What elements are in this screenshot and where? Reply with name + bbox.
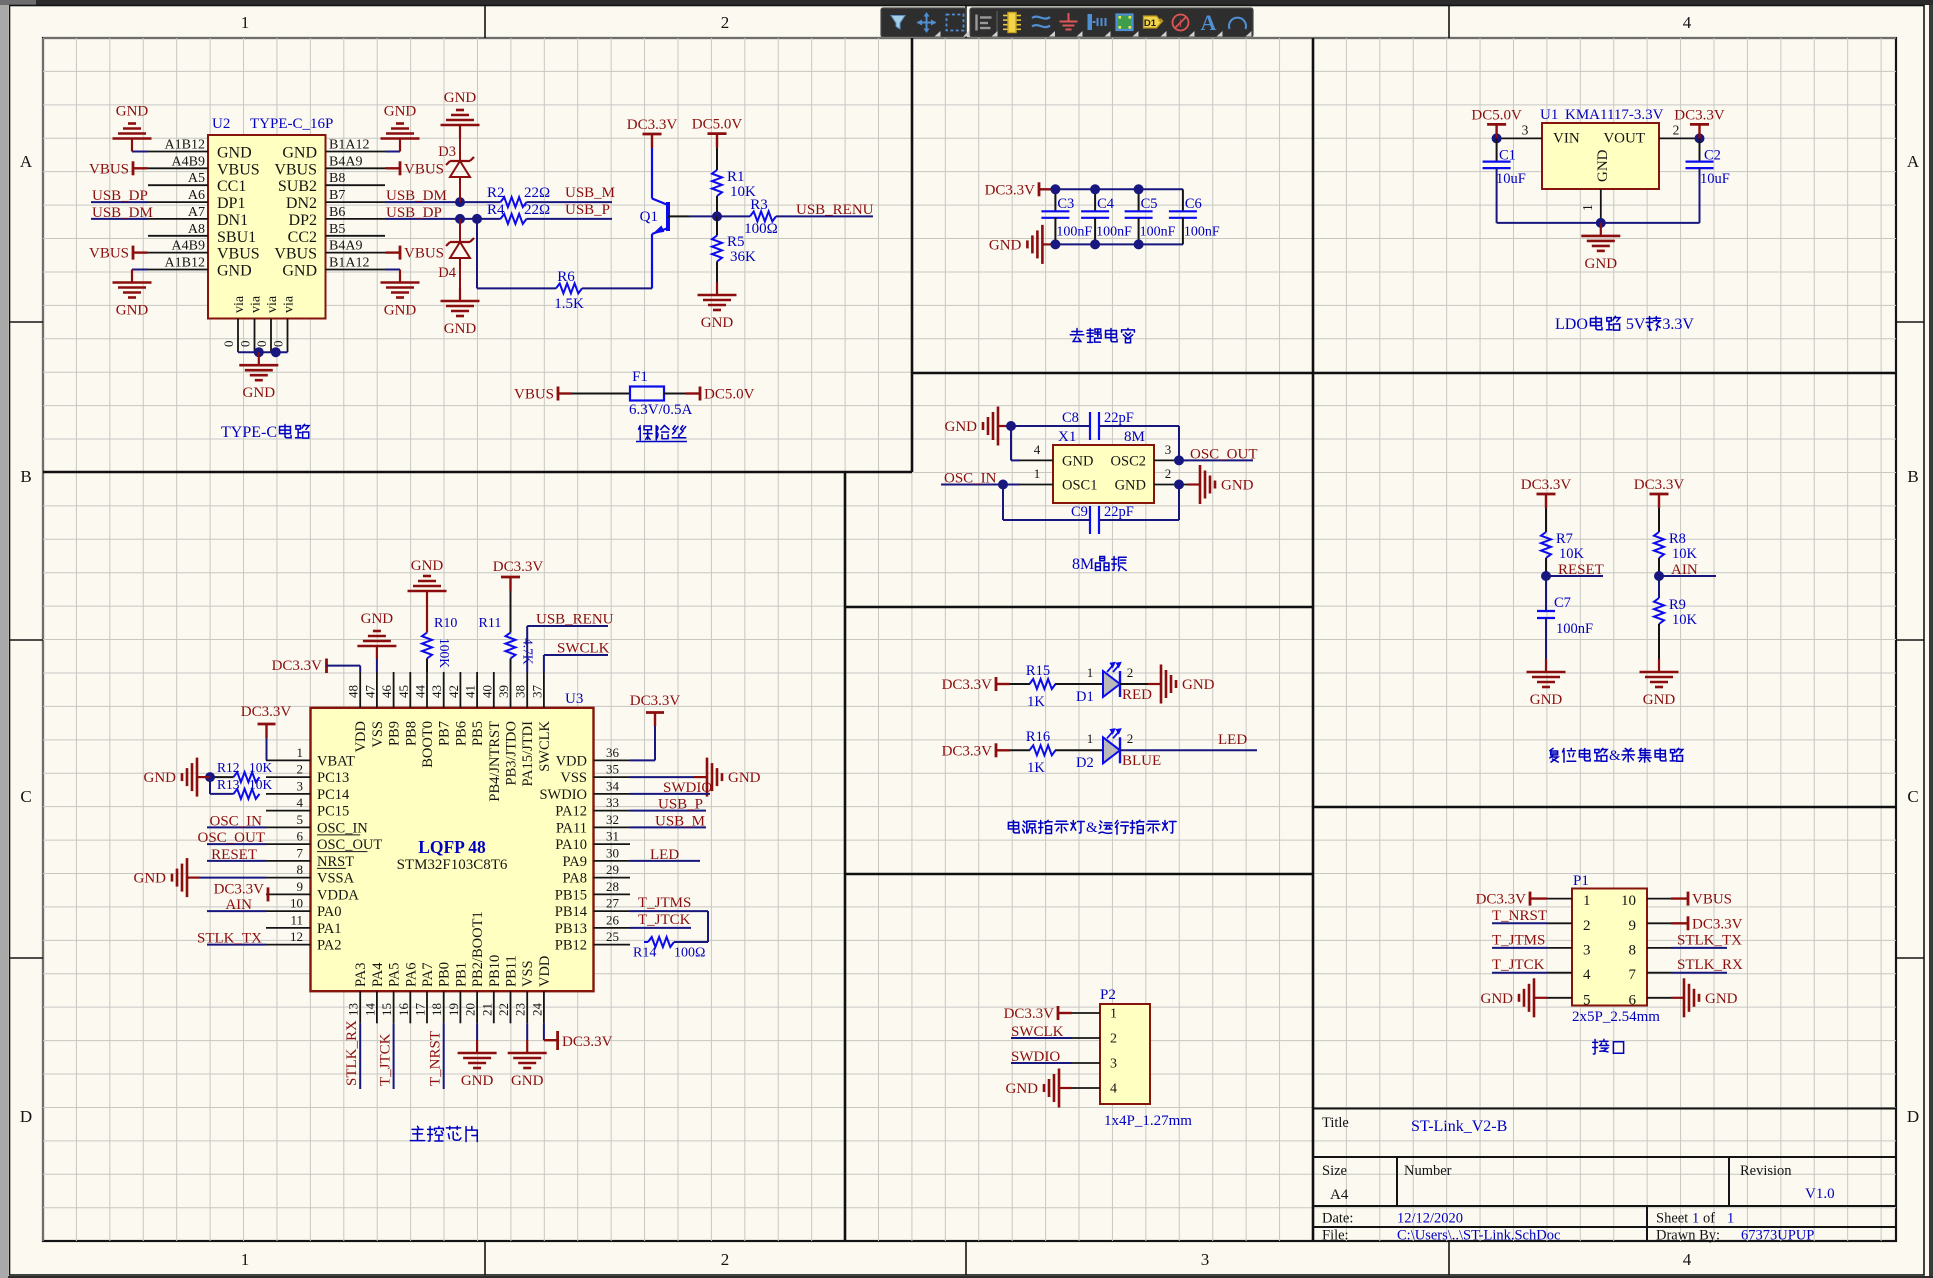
fuse F1 (630, 387, 664, 401)
transistor Q1 (666, 202, 670, 231)
svg-text:Q1: Q1 (640, 209, 658, 225)
ground above D3 (459, 125, 461, 138)
U3 pin 44 (BOOT0) (426, 672, 428, 708)
svg-text:15: 15 (379, 1003, 394, 1016)
svg-text:PA3: PA3 (353, 963, 369, 987)
svg-text:OSC_OUT: OSC_OUT (197, 830, 265, 846)
toolbar icon: ground (1060, 13, 1078, 30)
U3 pin 17 (PA7) (426, 991, 428, 1023)
power port DC3.3V P1 pin1 (1530, 897, 1547, 899)
svg-text:36: 36 (606, 745, 620, 760)
toolbar icon: power port (1088, 14, 1093, 30)
power port DC3.3V reset (1545, 494, 1547, 508)
svg-text:R13: R13 (217, 777, 240, 792)
svg-text:File:: File: (1322, 1228, 1349, 1244)
ground U2 bottom-left (132, 269, 148, 271)
svg-text:13: 13 (346, 1003, 361, 1016)
P1 pin 1 (1547, 898, 1572, 900)
P2 pin 3 (1072, 1062, 1100, 1064)
ground pin35 (630, 776, 694, 778)
toolbar divider (996, 11, 998, 34)
svg-text:B5: B5 (329, 222, 345, 237)
svg-text:A8: A8 (188, 222, 205, 237)
U3 pin 27 (PB14) (594, 910, 631, 912)
U3 pin 43 (PB7) (443, 672, 445, 708)
svg-text:STLK_RX: STLK_RX (344, 1020, 360, 1086)
svg-text:GND: GND (1006, 1081, 1039, 1097)
svg-text:B1A12: B1A12 (329, 138, 369, 153)
svg-text:T_JTCK: T_JTCK (638, 912, 691, 928)
U3 pin 5 (OSC_IN) (266, 826, 311, 828)
P1 pin 5 (1547, 997, 1572, 999)
svg-text:PA1: PA1 (317, 921, 341, 937)
U3 pin 34 (SWDIO) (594, 793, 631, 795)
svg-text:3.3V: 3.3V (1662, 316, 1694, 333)
svg-text:&: & (1609, 748, 1621, 764)
svg-text:Sheet: Sheet (1656, 1211, 1688, 1227)
svg-text:DC3.3V: DC3.3V (214, 881, 265, 897)
svg-text:SWDIO: SWDIO (1011, 1049, 1060, 1065)
svg-text:P1: P1 (1573, 873, 1589, 889)
net label T_JTCK / wire (1492, 972, 1547, 974)
svg-text:DC3.3V: DC3.3V (241, 704, 292, 720)
U3 pin 21 (PB10) (493, 991, 495, 1023)
svg-text:USB_DM: USB_DM (92, 205, 153, 221)
svg-text:GND: GND (1595, 149, 1611, 182)
svg-text:R1: R1 (727, 169, 745, 185)
svg-text:STLK_TX: STLK_TX (1677, 932, 1742, 948)
svg-text:DN1: DN1 (217, 212, 248, 229)
caption LEDs (1008, 820, 1019, 832)
svg-text:DC3.3V: DC3.3V (493, 559, 544, 575)
svg-text:GND: GND (282, 263, 317, 280)
svg-text:A: A (1907, 152, 1920, 171)
MCU U3 STM32F103C8T6 (311, 708, 594, 991)
svg-text:T_JTCK: T_JTCK (1492, 957, 1545, 973)
svg-text:GND: GND (361, 611, 394, 627)
svg-text:22: 22 (496, 1003, 511, 1016)
svg-text:VSS: VSS (370, 721, 386, 748)
net label USB_DM / wire (91, 218, 148, 220)
svg-text:PB3/JTDO: PB3/JTDO (504, 721, 520, 785)
svg-text:GND: GND (1481, 991, 1514, 1007)
svg-text:PB2/BOOT1: PB2/BOOT1 (470, 911, 486, 987)
svg-text:PB0: PB0 (437, 962, 453, 987)
svg-text:PB7: PB7 (437, 721, 453, 746)
svg-text:R8: R8 (1669, 531, 1686, 547)
svg-text:0: 0 (221, 341, 236, 348)
U3 pin 16 (PA6) (409, 991, 411, 1023)
svg-text:D: D (20, 1107, 32, 1126)
toolbar icon: designator tag (1144, 16, 1162, 28)
caption reset section (1550, 748, 1558, 762)
net label T_NRST / wire (443, 1023, 445, 1089)
svg-text:0: 0 (271, 341, 286, 348)
svg-text:LED: LED (1218, 732, 1247, 748)
U2 left pin A1B12 (148, 151, 208, 153)
X1 pin 3 (1154, 459, 1187, 461)
svg-text:10K: 10K (249, 760, 273, 775)
capacitor C9 22pF (1089, 506, 1091, 534)
power port DC3.3V P1 pin9 (1671, 922, 1688, 924)
svg-text:SUB2: SUB2 (278, 178, 317, 195)
svg-text:DC3.3V: DC3.3V (1674, 107, 1725, 123)
wire USB_DM net (385, 201, 501, 203)
svg-text:R4: R4 (487, 202, 505, 218)
U3 pin 18 (PB0) (443, 991, 445, 1023)
P1 pin 7 (1647, 972, 1671, 974)
svg-text:1: 1 (1727, 1211, 1734, 1227)
svg-text:19: 19 (446, 1003, 461, 1016)
svg-text:100nF: 100nF (1184, 225, 1220, 240)
svg-text:1: 1 (1034, 466, 1041, 481)
svg-text:T_JTCK: T_JTCK (378, 1033, 394, 1086)
wire C8 top loop (1011, 425, 1090, 427)
svg-text:GND: GND (411, 558, 444, 574)
svg-text:A4: A4 (1330, 1187, 1349, 1203)
svg-text:R14: R14 (633, 946, 656, 961)
resistor R9 10K (1658, 576, 1660, 598)
diode D3 zener (459, 176, 461, 202)
power port DC3.3V LED1 (996, 683, 1010, 685)
svg-text:C8: C8 (1062, 410, 1079, 426)
resistor R10 100K (426, 659, 428, 673)
net label T_JTCK bottom / wire (393, 1023, 395, 1089)
svg-text:VBUS: VBUS (404, 246, 444, 262)
svg-text:2: 2 (1127, 731, 1134, 746)
svg-text:ST-Link_V2-B: ST-Link_V2-B (1411, 1118, 1507, 1135)
svg-text:32: 32 (606, 812, 619, 827)
svg-text:PA8: PA8 (563, 871, 587, 887)
top dark strip (0, 0, 1933, 5)
svg-text:VBUS: VBUS (1692, 892, 1732, 908)
U3 pin 39 (PB3/JTDO) (510, 672, 512, 708)
svg-text:DC5.0V: DC5.0V (704, 387, 755, 403)
svg-text:PB10: PB10 (487, 955, 503, 987)
U3 pin 40 (PB4/JNTRST) (493, 672, 495, 708)
net label SWDIO P2 / wire (1011, 1062, 1072, 1064)
svg-text:GND: GND (1530, 692, 1563, 708)
svg-text:DC3.3V: DC3.3V (627, 117, 678, 133)
toolbar (881, 8, 966, 37)
svg-text:27: 27 (606, 896, 620, 911)
svg-text:100K: 100K (437, 638, 452, 668)
diode D4 zener (459, 219, 461, 241)
svg-text:1: 1 (1087, 731, 1094, 746)
svg-text:11: 11 (290, 912, 303, 927)
svg-text:RED: RED (1122, 687, 1152, 703)
svg-text:C5: C5 (1141, 196, 1158, 212)
svg-text:22pF: 22pF (1104, 504, 1134, 520)
svg-text:A: A (20, 152, 33, 171)
U1 pin 3 (1497, 137, 1542, 139)
svg-text:R6: R6 (557, 269, 575, 285)
svg-text:1: 1 (1087, 665, 1094, 680)
svg-text:F1: F1 (632, 369, 648, 385)
P1 pin 6 (1647, 997, 1671, 999)
svg-text:R7: R7 (1556, 531, 1573, 547)
svg-text:1: 1 (1110, 1007, 1117, 1022)
U3 pin 15 (PA5) (393, 991, 395, 1023)
svg-text:26: 26 (606, 912, 620, 927)
svg-text:39: 39 (496, 685, 511, 698)
U3 pin 23 (VSS) (526, 991, 528, 1023)
ground U2 bottom-right (385, 269, 400, 271)
svg-text:R5: R5 (727, 234, 745, 250)
section partition lines (911, 38, 914, 472)
capacitor C3 100nF (1054, 189, 1056, 211)
power port DC3.3V ain (1658, 494, 1660, 508)
caption decoupling (1070, 328, 1083, 341)
svg-text:Title: Title (1322, 1115, 1349, 1131)
svg-text:PB1: PB1 (453, 962, 469, 987)
P1 pin 9 (1647, 922, 1671, 924)
svg-text:22pF: 22pF (1104, 410, 1134, 426)
capacitor C5 100nF (1138, 189, 1140, 211)
svg-text:35: 35 (606, 762, 619, 777)
svg-text:AIN: AIN (1671, 562, 1698, 578)
title block (1313, 1108, 1896, 1110)
svg-text:BOOT0: BOOT0 (420, 721, 436, 768)
svg-text:GND: GND (282, 145, 317, 162)
svg-text:SBU1: SBU1 (217, 229, 256, 246)
svg-text:SWDIO: SWDIO (663, 780, 712, 796)
svg-text:24: 24 (529, 1003, 544, 1017)
svg-text:C2: C2 (1704, 148, 1721, 164)
net label STLK_RX / wire (359, 1023, 361, 1089)
svg-text:D4: D4 (438, 265, 456, 281)
svg-text:D3: D3 (438, 144, 456, 160)
net label OSC_OUT / wire (207, 843, 266, 845)
svg-text:3: 3 (1201, 1250, 1210, 1269)
svg-text:PC14: PC14 (317, 787, 350, 803)
ground below C7 (1545, 659, 1547, 672)
svg-text:8: 8 (297, 862, 304, 877)
ground pin20 (476, 1023, 478, 1040)
svg-text:VBUS: VBUS (404, 161, 444, 177)
svg-text:USB_M: USB_M (565, 185, 615, 201)
svg-text:VDD: VDD (537, 956, 553, 987)
X1 pin 4 (1020, 459, 1053, 461)
svg-text:R3: R3 (750, 197, 768, 213)
ground below R9 (1658, 659, 1660, 672)
svg-text:45: 45 (396, 685, 411, 698)
net label USB_DP / wire (91, 201, 148, 203)
svg-text:B8: B8 (329, 171, 345, 186)
U2 right pin B1A12 (326, 269, 386, 271)
toolbar icon: no-ERC marker (1173, 15, 1189, 31)
power port VBUS U2 right row2 (385, 167, 386, 169)
svg-text:B1A12: B1A12 (329, 256, 369, 271)
svg-text:R11: R11 (479, 616, 502, 631)
wire C9 bottom loop (1002, 485, 1004, 521)
resistor R8 10K (1658, 508, 1660, 532)
svg-text:DC3.3V: DC3.3V (630, 693, 681, 709)
power port DC5.0V at LDO (1492, 133, 1502, 143)
svg-text:DN2: DN2 (286, 195, 317, 212)
ground pin8 VSSA (200, 877, 266, 879)
svg-text:USB_DP: USB_DP (386, 205, 442, 221)
svg-text:1K: 1K (1027, 694, 1045, 710)
power port DC3.3V decoupling (1039, 188, 1051, 190)
U3 pin 14 (PA4) (376, 991, 378, 1023)
resistor R3 100ohm (717, 215, 750, 217)
U2 left pin A8 (148, 235, 208, 237)
svg-text:23: 23 (513, 1003, 528, 1016)
svg-text:PB15: PB15 (555, 887, 587, 903)
crystal X1 8M (1053, 445, 1154, 503)
U3 pin 48 (VDD) (359, 672, 361, 708)
svg-text:GND: GND (701, 315, 734, 331)
svg-text:Drawn By:: Drawn By: (1656, 1228, 1720, 1244)
svg-text:GND: GND (444, 321, 477, 337)
svg-text:VBUS: VBUS (89, 161, 129, 177)
svg-text:GND: GND (384, 104, 417, 120)
U2 left pin A4B9 (148, 167, 208, 169)
U2 left pin A6 (148, 201, 208, 203)
svg-text:PB9: PB9 (387, 721, 403, 746)
svg-text:LQFP 48: LQFP 48 (418, 837, 486, 857)
svg-text:GND: GND (989, 237, 1022, 253)
svg-text:CC1: CC1 (217, 178, 246, 195)
svg-text:U3: U3 (565, 691, 583, 707)
svg-text:0: 0 (238, 341, 253, 348)
power port DC5.0V above R1 (716, 134, 718, 148)
svg-text:VBAT: VBAT (317, 753, 355, 769)
svg-text:&: & (1086, 820, 1098, 836)
svg-text:V1.0: V1.0 (1805, 1186, 1835, 1202)
ground pin47 (376, 659, 378, 672)
svg-text:10K: 10K (1559, 546, 1585, 562)
svg-text:SWCLK: SWCLK (537, 720, 553, 771)
svg-text:1: 1 (241, 13, 250, 32)
svg-text:PA5: PA5 (387, 963, 403, 987)
svg-text:100Ω: 100Ω (674, 946, 705, 961)
svg-text:C7: C7 (1554, 595, 1571, 611)
U3 pin 33 (PA12) (594, 810, 631, 812)
U3 pin 3 (PC14) (266, 793, 311, 795)
svg-text:GND: GND (1115, 478, 1146, 494)
svg-text:VBUS: VBUS (89, 246, 129, 262)
svg-text:0: 0 (254, 341, 269, 348)
svg-text:D1: D1 (1076, 689, 1094, 705)
svg-text:40: 40 (479, 685, 494, 698)
power port DC3.3V pin9 VDDA (267, 887, 270, 901)
svg-text:PB5: PB5 (470, 721, 486, 746)
svg-text:PA2: PA2 (317, 938, 341, 954)
svg-text:DC3.3V: DC3.3V (942, 677, 993, 693)
svg-text:A: A (1201, 10, 1217, 35)
capacitor C6 100nF (1182, 189, 1184, 211)
svg-text:21: 21 (479, 1003, 494, 1016)
svg-text:DC3.3V: DC3.3V (1692, 916, 1743, 932)
svg-text:C:\Users\..\ST-Link.SchDoc: C:\Users\..\ST-Link.SchDoc (1397, 1228, 1560, 1244)
P1 pin 3 (1547, 947, 1572, 949)
svg-text:2: 2 (721, 13, 730, 32)
U3 pin 8 (VSSA) (266, 877, 311, 879)
regulator U1 KMA1117-3.3V (1542, 123, 1659, 189)
power port DC3.3V above Q1 (651, 134, 653, 148)
svg-text:29: 29 (606, 862, 619, 877)
power port DC3.3V pin24 (543, 1023, 545, 1040)
svg-text:2: 2 (1127, 665, 1134, 680)
svg-text:22Ω: 22Ω (524, 185, 550, 201)
svg-text:A6: A6 (188, 188, 205, 203)
svg-text:Revision: Revision (1740, 1163, 1792, 1179)
ground below R5 (716, 282, 718, 295)
svg-text:VBUS: VBUS (217, 246, 260, 263)
svg-text:DC3.3V: DC3.3V (562, 1034, 613, 1050)
resistor R6 1.5K (556, 283, 582, 293)
svg-text:9: 9 (1629, 918, 1637, 934)
svg-text:LED: LED (650, 847, 679, 863)
svg-text:1x4P_1.27mm: 1x4P_1.27mm (1104, 1113, 1192, 1129)
svg-text:9: 9 (297, 879, 304, 894)
svg-text:U1: U1 (1540, 107, 1558, 123)
net label SWDIO / wire (630, 793, 710, 795)
capacitor C7 100nF (1545, 576, 1547, 611)
caption fuse (639, 426, 652, 440)
X1 pin 2 (1154, 484, 1187, 486)
resistor R2 22ohm (501, 197, 527, 207)
svg-text:10K: 10K (1672, 546, 1698, 562)
svg-text:4: 4 (1110, 1082, 1117, 1097)
U1 pin 2 (1659, 137, 1700, 139)
svg-text:R16: R16 (1026, 729, 1050, 745)
svg-text:PA6: PA6 (403, 963, 419, 987)
U3 pin 31 (PA10) (594, 843, 631, 845)
svg-text:25: 25 (606, 929, 619, 944)
U2 left pin A4B9 (148, 252, 208, 254)
svg-text:VSSA: VSSA (317, 871, 355, 887)
wire / net label LED (1120, 749, 1257, 751)
toolbar icon: arc (1229, 18, 1246, 29)
svg-text:OSC1: OSC1 (1062, 478, 1097, 494)
U3 pin 32 (PA11) (594, 826, 631, 828)
svg-text:PA0: PA0 (317, 904, 341, 920)
svg-text:1.5K: 1.5K (554, 296, 584, 312)
svg-text:R15: R15 (1026, 663, 1050, 679)
ground below D4 (459, 288, 461, 301)
svg-text:via: via (265, 295, 280, 313)
capacitor C4 100nF (1094, 189, 1096, 211)
svg-text:42: 42 (446, 685, 461, 698)
U2 left pin A5 (148, 184, 208, 186)
U3 pin 1 (VBAT) (266, 759, 311, 761)
wire via common (238, 351, 288, 353)
svg-text:Date:: Date: (1322, 1211, 1353, 1227)
svg-text:PC15: PC15 (317, 804, 349, 820)
resistor R13 10K (234, 789, 260, 799)
svg-text:A1B12: A1B12 (165, 256, 205, 271)
svg-text:TYPE-C_16P: TYPE-C_16P (250, 116, 333, 132)
resistor R16 1K (1030, 745, 1056, 755)
svg-text:Size: Size (1322, 1163, 1347, 1179)
svg-text:PB13: PB13 (555, 921, 587, 937)
svg-text:4: 4 (1683, 13, 1692, 32)
svg-text:B6: B6 (329, 205, 345, 220)
net label OSC_IN / wire (207, 826, 266, 828)
svg-text:A5: A5 (188, 171, 205, 186)
svg-text:R12: R12 (217, 760, 240, 775)
svg-text:B: B (20, 467, 31, 486)
resistor R15 1K (1030, 679, 1056, 689)
ground R12 (197, 776, 210, 778)
svg-text:8: 8 (1629, 942, 1637, 958)
net label USB_P / wire (630, 810, 706, 812)
svg-text:GND: GND (116, 303, 149, 319)
svg-text:VDDA: VDDA (317, 887, 359, 903)
